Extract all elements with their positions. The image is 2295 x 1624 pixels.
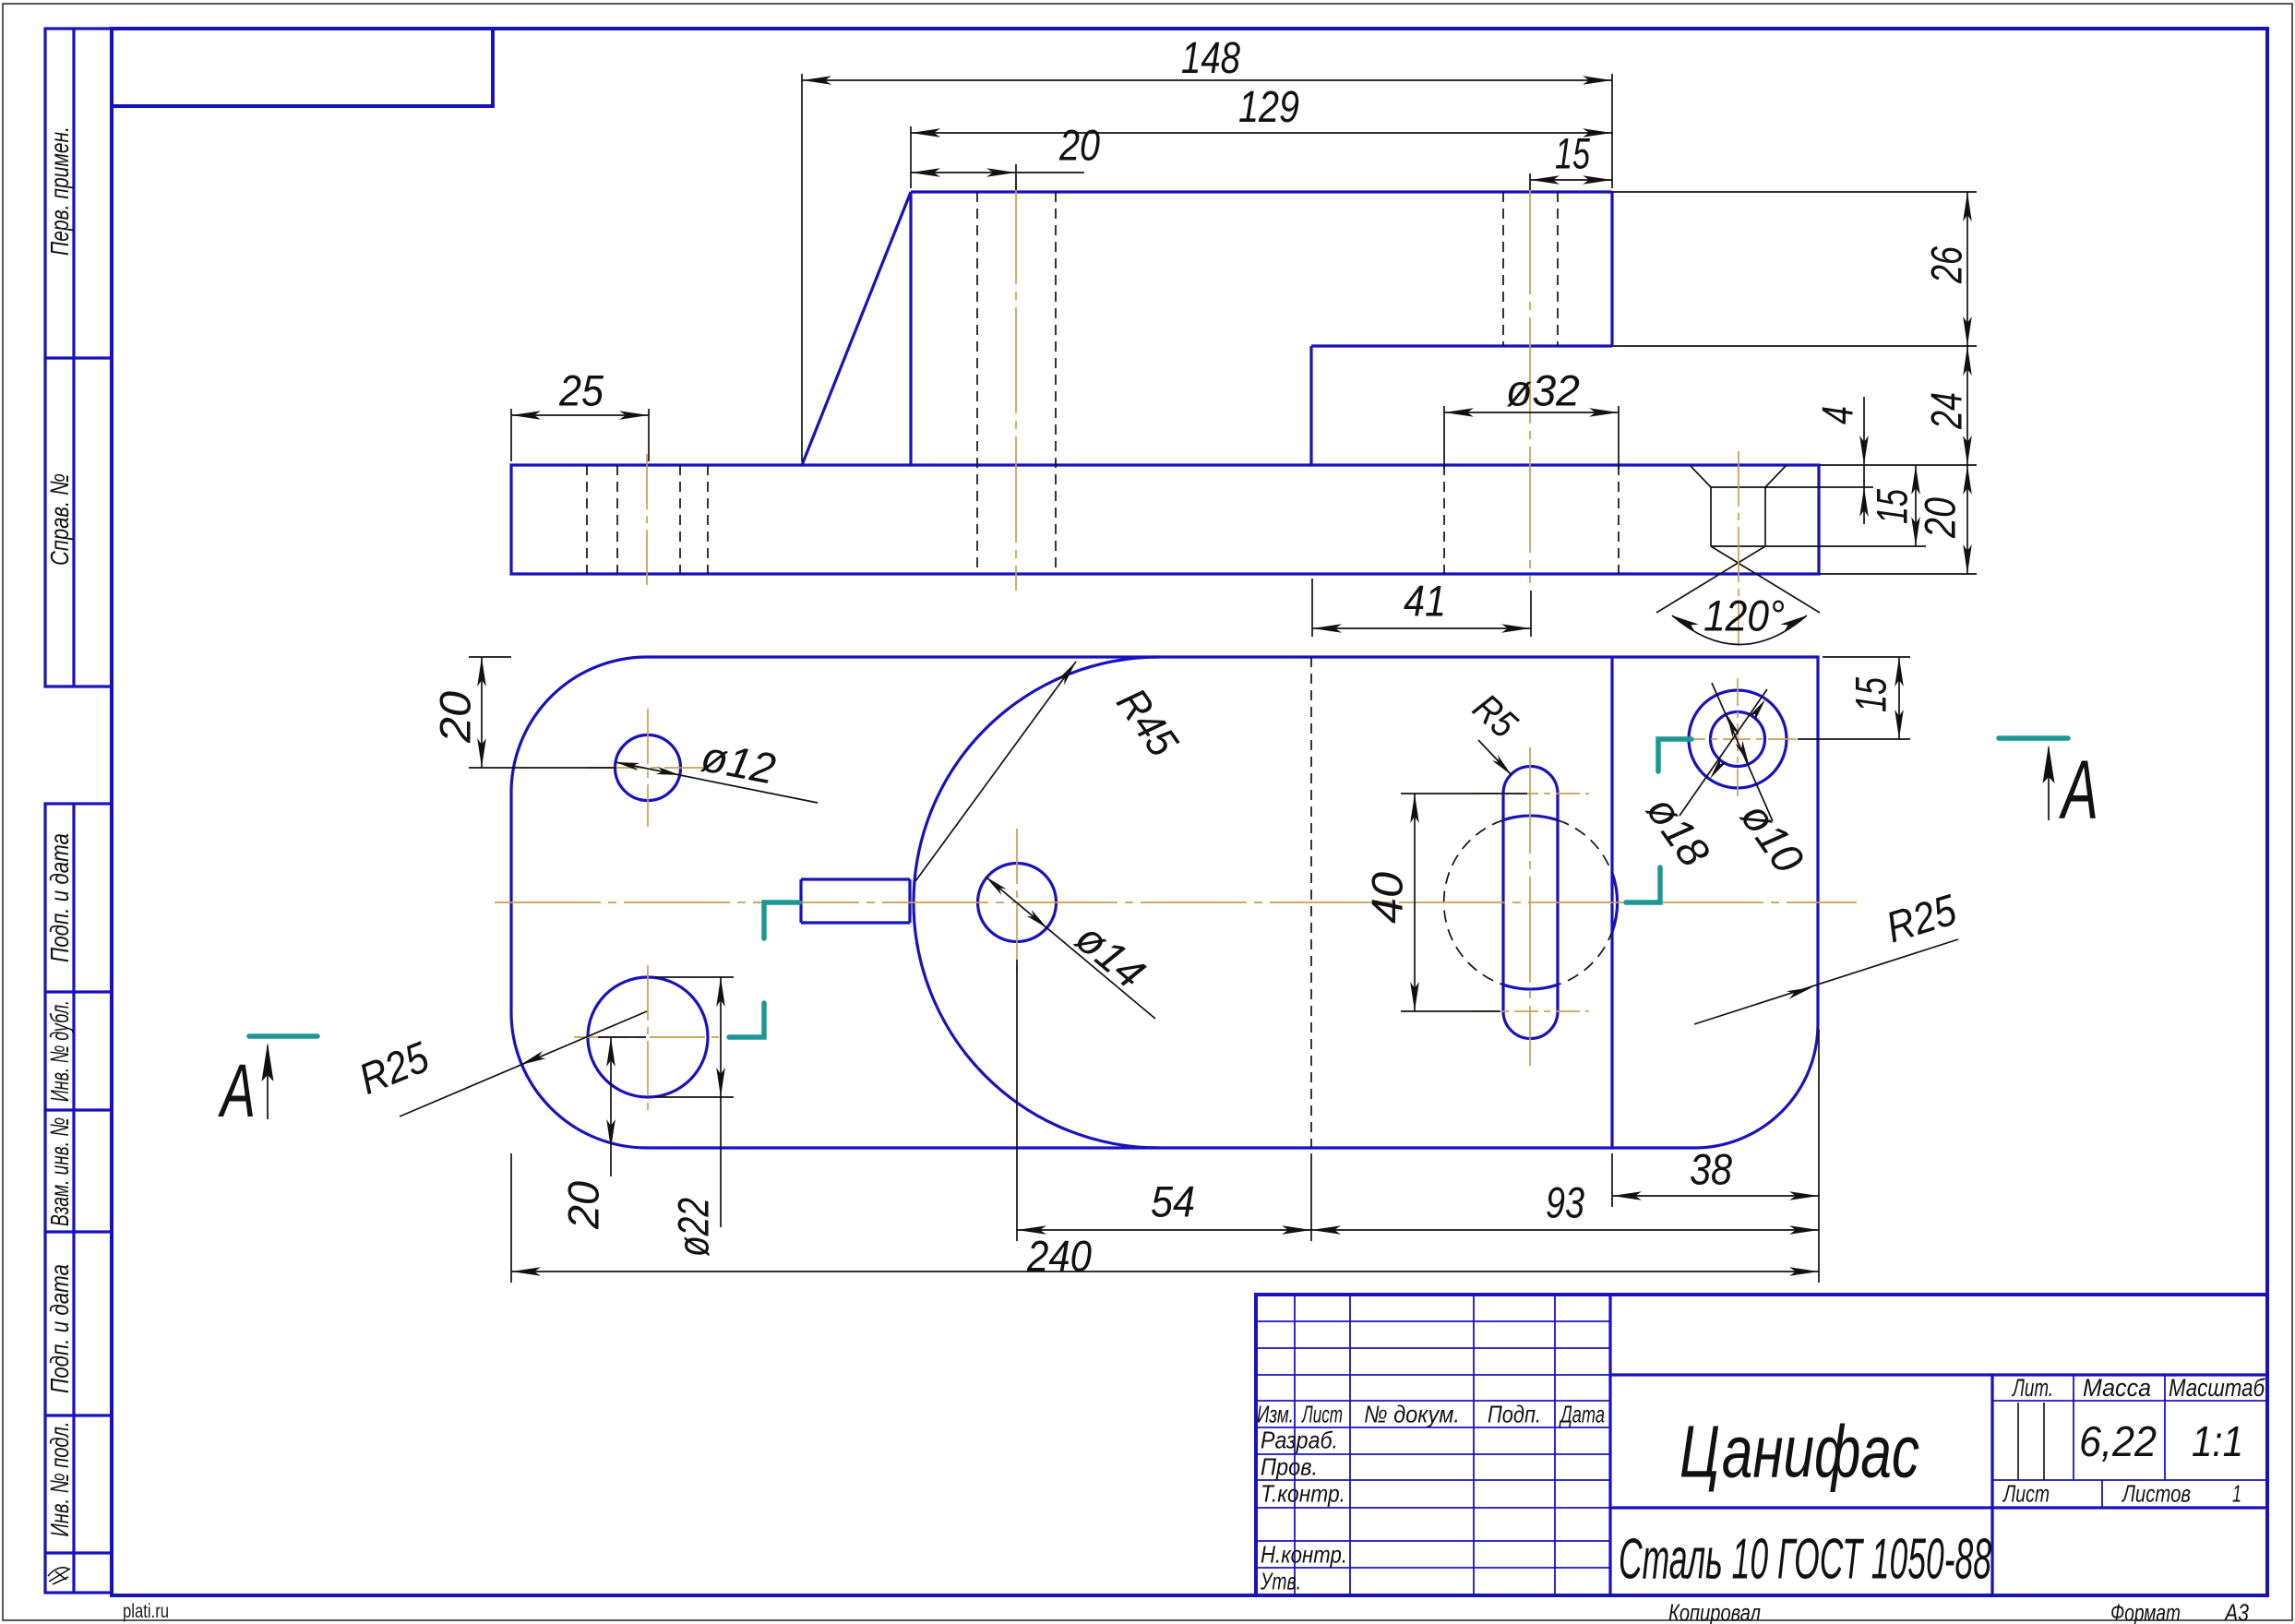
title text No dokum [1364, 1401, 1460, 1428]
dimension 20 (plan bottom-left) [559, 1037, 647, 1230]
front view base plate outline [511, 465, 1819, 574]
title text List [2002, 1480, 2050, 1508]
svg-text:Лист: Лист [1301, 1401, 1343, 1428]
svg-text:93: 93 [1546, 1178, 1584, 1227]
svg-text:Подп. и дата: Подп. и дата [45, 833, 74, 962]
svg-text:Утв.: Утв. [1260, 1568, 1301, 1595]
dimension text 20 (right) [1916, 497, 1965, 539]
section bend mark lower-right [1626, 867, 1660, 902]
centerline holes left (front) [646, 454, 648, 591]
svg-text:38: 38 [1690, 1145, 1732, 1194]
svg-text:4: 4 [1813, 406, 1862, 424]
hidden hole o14 right [1055, 192, 1057, 574]
centerline o12 horizontal [589, 767, 709, 769]
title text Utv [1260, 1568, 1301, 1595]
section bend mark upper-left [764, 902, 799, 938]
svg-text:Перв. примен.: Перв. примен. [45, 126, 74, 256]
counterbore edge visible through slot (bottom) [1503, 985, 1558, 989]
front view step left edge [1309, 346, 1312, 465]
title text List hdr [1301, 1401, 1343, 1428]
dimension text 26 [1922, 245, 1971, 283]
footer Format [2110, 1599, 2181, 1624]
svg-text:148: 148 [1181, 34, 1240, 83]
left margin column upper group [45, 29, 112, 687]
title text Data hdr [1559, 1401, 1605, 1428]
svg-text:6,22: 6,22 [2079, 1417, 2157, 1465]
centerline o14 (front) [1015, 178, 1017, 591]
svg-text:240: 240 [1026, 1232, 1092, 1281]
title block grid [1256, 1295, 2267, 1595]
svg-text:ø32: ø32 [1506, 366, 1580, 415]
leader R5 [1465, 686, 1526, 775]
leader o18 [1637, 689, 1767, 875]
part name Tsanifas [1679, 1410, 1919, 1492]
svg-text:А3: А3 [2223, 1599, 2249, 1624]
svg-text:Разраб.: Разраб. [1261, 1427, 1338, 1454]
svg-text:20: 20 [1058, 121, 1100, 170]
dimension 38 [1612, 1145, 1819, 1208]
centerline o18 vertical [1737, 678, 1739, 801]
svg-text:Листов: Листов [2121, 1480, 2191, 1508]
dimension text 24 [1922, 392, 1971, 430]
hidden counterbore o32 left [1443, 465, 1445, 574]
hole o10 (plan) [1711, 712, 1765, 767]
section arrow A (right) [1999, 738, 2098, 837]
plan boss arc R45 [914, 657, 1159, 1148]
centerline o14 vertical [1016, 829, 1018, 978]
svg-text:129: 129 [1238, 83, 1299, 132]
svg-text:Формат: Формат [2110, 1599, 2181, 1624]
title text Lit [2012, 1374, 2053, 1402]
centerline slot top arc [1473, 793, 1589, 794]
centerline slot/o32 (front) [1529, 188, 1531, 583]
front view block right edge [1610, 192, 1613, 346]
title text Listov [2121, 1480, 2191, 1508]
svg-text:20: 20 [1916, 497, 1965, 539]
svg-text:41: 41 [1404, 577, 1446, 626]
dimension 25 [511, 366, 649, 462]
dimension 120 deg [1672, 591, 1807, 645]
svg-text:15: 15 [1868, 488, 1917, 524]
dimension 41 [1312, 577, 1531, 638]
svg-text:A: A [2059, 745, 2098, 837]
label Podp. i data 1 [45, 833, 74, 962]
footer A3 [2223, 1599, 2249, 1624]
counterbore edge visible through slot (top) [1503, 816, 1558, 820]
countersunk hole profile [1690, 465, 1787, 546]
svg-text:120°: 120° [1703, 591, 1785, 640]
hidden slot o10 left [1502, 192, 1504, 346]
svg-text:1:1: 1:1 [2192, 1417, 2243, 1465]
dimension 20 (plan top-left) [431, 657, 617, 768]
title text Podp hdr [1488, 1401, 1541, 1428]
dimension 148 [802, 34, 1612, 461]
plan block right face [1610, 657, 1613, 1148]
leader R25 left [352, 1011, 647, 1116]
title text Massa [2083, 1374, 2151, 1402]
dimension 40 [1363, 794, 1528, 1011]
front view step top edge [1311, 344, 1612, 347]
title text Prov [1261, 1453, 1318, 1481]
front view block top edge [911, 190, 1612, 193]
svg-text:Инв. № подл.: Инв. № подл. [45, 1422, 74, 1537]
label Perv. primen. [45, 126, 74, 256]
front view rib slant edge [802, 192, 911, 465]
watermark plati.ru [123, 1601, 169, 1622]
svg-text:Сталь 10 ГОСТ 1050-88: Сталь 10 ГОСТ 1050-88 [1619, 1528, 1991, 1592]
plan hidden step edge [1310, 657, 1312, 1148]
hidden hole o22 left [586, 465, 588, 574]
hole o22 (plan) [588, 977, 708, 1097]
svg-text:24: 24 [1922, 392, 1971, 430]
centerline o22 horizontal [574, 1036, 722, 1038]
svg-text:Инв. № дубл.: Инв. № дубл. [45, 1000, 74, 1102]
dimension 129 [911, 83, 1612, 188]
svg-text:Подп.: Подп. [1488, 1401, 1541, 1428]
dimension 15 (plan top-right) [1798, 657, 1910, 739]
plan view plate outline [511, 657, 1818, 1148]
label Sprav. No [45, 473, 74, 566]
leader o12 [616, 731, 818, 803]
svg-text:15: 15 [1555, 129, 1591, 178]
svg-text:ø22: ø22 [669, 1198, 718, 1257]
title value listov [2232, 1480, 2241, 1508]
svg-text:Взам. инв. №: Взам. инв. № [45, 1117, 74, 1226]
hole o12 (plan) [616, 735, 681, 801]
hidden hole o22 right [707, 465, 709, 574]
hidden counterbore o32 circle right arc [1558, 820, 1617, 985]
title value massa [2079, 1417, 2157, 1465]
hidden slot o10 right [1557, 192, 1559, 346]
svg-text:1: 1 [2232, 1480, 2241, 1508]
svg-text:Цанифас: Цанифас [1679, 1410, 1919, 1492]
svg-text:Т.контр.: Т.контр. [1261, 1480, 1345, 1508]
title value masshtab [2192, 1417, 2243, 1465]
footer Kopiroval [1668, 1599, 1761, 1624]
centerline o22 vertical [647, 965, 649, 1112]
dimension 20 (top) [911, 121, 1100, 191]
svg-text:20: 20 [431, 691, 480, 744]
dimension 93 [1311, 1029, 1819, 1283]
svg-text:Масса: Масса [2083, 1374, 2151, 1402]
hidden counterbore o32 right [1618, 465, 1620, 574]
hidden hole o12 left [616, 465, 618, 574]
front view block left face [909, 192, 912, 465]
drill point cross line 2 [1656, 546, 1765, 613]
dimension o22 [655, 977, 734, 1257]
title text Izm [1257, 1401, 1294, 1428]
hole o18 (plan) [1689, 690, 1787, 788]
leader R25 right [1694, 884, 1963, 1024]
svg-text:Лит.: Лит. [2012, 1374, 2053, 1402]
section bend mark lower-left [729, 1003, 764, 1037]
title text Tkontr [1261, 1480, 1345, 1508]
plan rib tab [801, 879, 910, 923]
svg-text:Н.контр.: Н.контр. [1261, 1541, 1347, 1569]
label Podp. i data 2 [45, 1264, 74, 1393]
hole o14 (plan) [978, 864, 1057, 942]
dimension 4 [1765, 397, 1873, 524]
svg-text:Копировал: Копировал [1668, 1599, 1761, 1624]
drill point cross line 1 [1711, 546, 1820, 613]
label Inv. No dubl. [45, 1000, 74, 1102]
slot outline [1503, 767, 1558, 1039]
centerline slot bottom arc [1473, 1010, 1589, 1012]
svg-text:№ докум.: № докум. [1364, 1401, 1460, 1428]
title text Masshtab [2169, 1374, 2265, 1402]
centerline o12 vertical [647, 709, 649, 827]
top-left designation box [112, 29, 493, 106]
counterbore break-out arc [1612, 873, 1618, 932]
svg-text:40: 40 [1363, 872, 1412, 924]
leader o10 [1712, 683, 1813, 881]
svg-text:54: 54 [1151, 1177, 1195, 1226]
material Stal 10 GOST 1050-88 [1619, 1528, 1991, 1592]
signature scribble [48, 1568, 70, 1584]
dimension 54 [1017, 960, 1311, 1241]
centerline slot vertical [1529, 747, 1531, 1066]
centerline countersink (front) [1738, 451, 1739, 646]
svg-text:Справ. №: Справ. № [45, 473, 74, 566]
svg-text:15: 15 [1847, 676, 1895, 712]
dimension chain 26/24/20 lines [1612, 192, 1977, 574]
leader R45 [915, 662, 1189, 881]
hidden hole o12 right [679, 465, 681, 574]
title text Nkontr [1261, 1541, 1347, 1569]
svg-text:Лист: Лист [2002, 1480, 2050, 1508]
centerline o18 horizontal [1678, 738, 1799, 740]
left margin column lower group [45, 804, 112, 1593]
main centerline (plan) [495, 902, 1857, 903]
title text Razrab [1261, 1427, 1338, 1454]
svg-text:Пров.: Пров. [1261, 1453, 1318, 1481]
svg-text:plati.ru: plati.ru [123, 1601, 169, 1622]
svg-text:Масштаб: Масштаб [2169, 1374, 2265, 1402]
dimension 15 (countersink depth) [1765, 465, 1926, 546]
svg-text:A: A [218, 1049, 256, 1133]
section arrow A (left) [218, 1036, 317, 1133]
svg-text:26: 26 [1922, 245, 1971, 283]
svg-text:Подп. и дата: Подп. и дата [45, 1264, 74, 1393]
dimension 240 [511, 1153, 1819, 1283]
svg-text:25: 25 [558, 366, 604, 415]
dimension o32 [1444, 366, 1619, 470]
hidden hole o14 left [976, 192, 978, 574]
label Inv. No podl. [45, 1422, 74, 1537]
svg-text:Дата: Дата [1559, 1401, 1605, 1428]
dimension 15 (top) [1530, 129, 1612, 191]
label Vzam. inv. No [45, 1117, 74, 1226]
svg-text:20: 20 [559, 1181, 608, 1230]
section bend mark upper-right [1658, 739, 1691, 771]
leader o14 [986, 877, 1155, 1019]
hidden counterbore o32 circle left arc [1444, 820, 1503, 985]
svg-text:Изм.: Изм. [1257, 1401, 1294, 1428]
